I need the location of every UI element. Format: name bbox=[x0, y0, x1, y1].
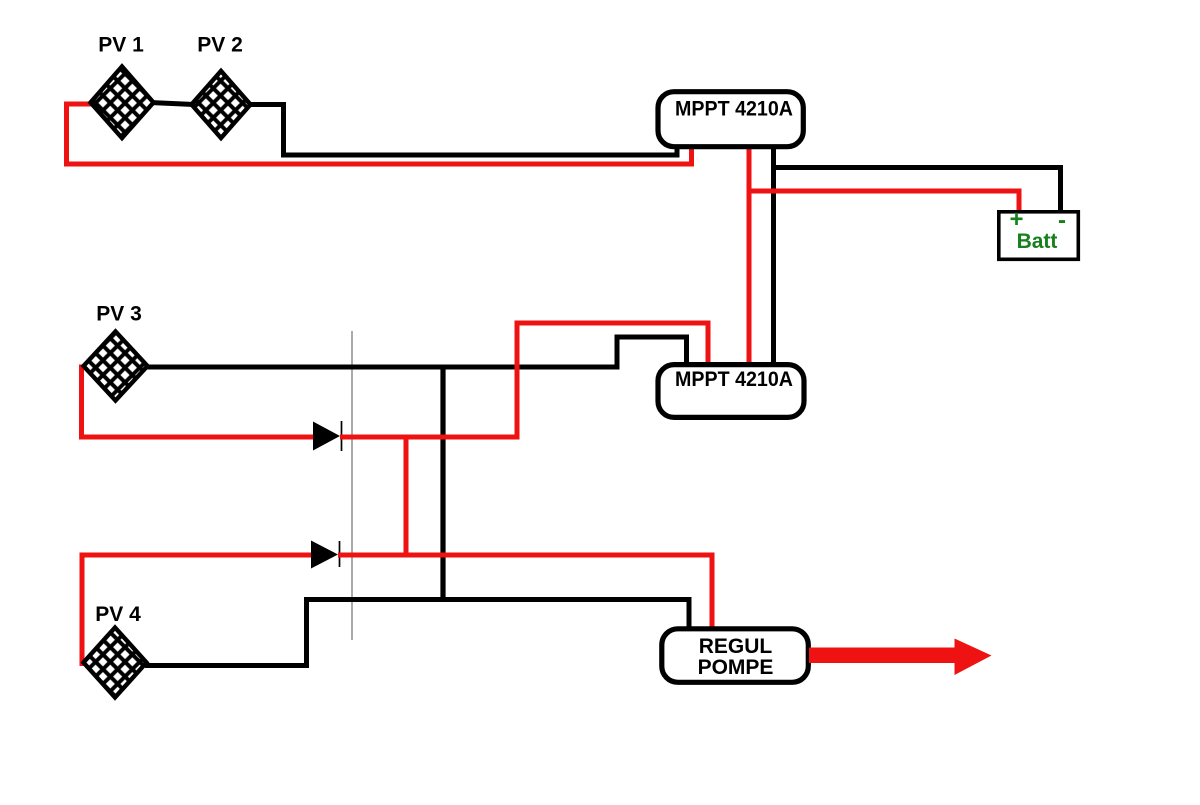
construction line (thin gray vertical) bbox=[351, 331, 353, 640]
wire black: PV2 - into MPPT1 U1 bbox=[249, 105, 677, 156]
wire black: PV1 - to PV2 + bbox=[150, 103, 194, 105]
svg-text:REGUL: REGUL bbox=[699, 635, 773, 658]
pump output arrow bbox=[809, 639, 992, 676]
PV panel PV2 bbox=[192, 71, 251, 138]
wire black: PV3/PV4 - common bus vertical bbox=[440, 365, 445, 602]
wire red: PV3 + down to diode D1 anode bbox=[82, 367, 314, 437]
svg-text:PV 3: PV 3 bbox=[96, 303, 142, 326]
PV panel PV3 bbox=[84, 332, 148, 401]
svg-text:PV 2: PV 2 bbox=[197, 34, 243, 57]
diode D2 bbox=[311, 541, 338, 569]
wire red: PV1 + down and along bottom into MPPT1 U1 bbox=[67, 104, 692, 164]
PV panel PV4 bbox=[84, 628, 147, 698]
wire black: MPPT1 battery - bus down to MPPT2 bbox=[771, 148, 776, 363]
svg-text:+: + bbox=[1009, 206, 1023, 233]
MPPT controller U1 box bbox=[658, 92, 803, 147]
battery Batt box bbox=[999, 212, 1079, 259]
wire red: junction D1 output to D2 output bbox=[404, 437, 409, 555]
svg-text:PV 1: PV 1 bbox=[98, 34, 144, 57]
PV panel PV1 bbox=[91, 67, 154, 139]
diode D1 bbox=[313, 422, 340, 451]
wire red: D1 cathode up and over to MPPT2 input bbox=[340, 323, 708, 437]
svg-text:MPPT 4210A: MPPT 4210A bbox=[675, 368, 793, 391]
wire red: branch to battery + terminal bbox=[749, 191, 1019, 211]
wire black: PV4 - to REGUL POMPE input bbox=[145, 600, 689, 666]
svg-text:MPPT 4210A: MPPT 4210A bbox=[675, 98, 793, 121]
diode D2 cathode bar bbox=[339, 541, 341, 567]
MPPT controller U2 box bbox=[658, 365, 804, 418]
wire red: D2 cathode to REGUL POMPE input bbox=[338, 555, 712, 627]
wire red: PV4 + up to diode D2 anode bbox=[82, 555, 311, 664]
wire red: MPPT1 battery + bus down to MPPT2 bbox=[747, 148, 752, 363]
svg-text:PV 4: PV 4 bbox=[95, 603, 141, 626]
REGUL POMPE controller box bbox=[662, 629, 809, 683]
wire black: branch to battery - terminal bbox=[774, 168, 1061, 212]
diode D1 cathode bar bbox=[341, 421, 343, 451]
svg-text:POMPE: POMPE bbox=[698, 656, 774, 679]
wire black: PV3 - to MPPT2 input bbox=[145, 337, 687, 367]
svg-text:-: - bbox=[1058, 207, 1066, 234]
svg-text:Batt: Batt bbox=[1017, 230, 1058, 253]
